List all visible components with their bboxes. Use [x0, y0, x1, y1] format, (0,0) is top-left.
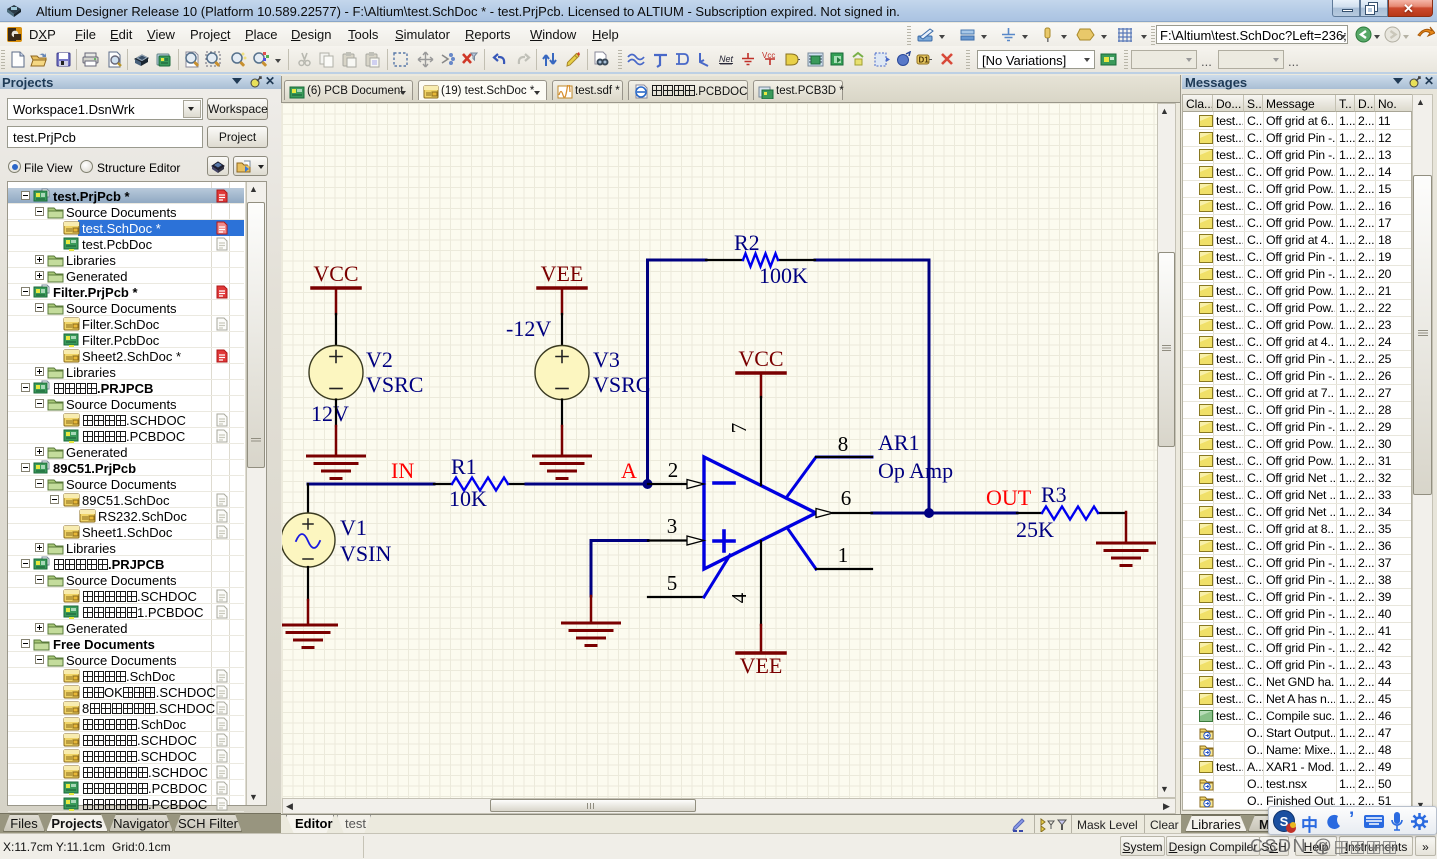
- ground G3 (V1): [280, 625, 337, 648]
- svg-text:6: 6: [841, 486, 852, 510]
- resistor R2: [706, 254, 815, 267]
- svg-text:VCC: VCC: [738, 346, 783, 371]
- svg-text:7: 7: [727, 423, 751, 434]
- op-amp minus symbol: [714, 481, 734, 485]
- op-amp plus symbol: [714, 531, 734, 551]
- svg-text:VCC: VCC: [313, 261, 358, 286]
- wire: output net OUT: [872, 512, 1017, 515]
- source V1 VSIN: [281, 513, 335, 567]
- ground stem V1: [307, 600, 310, 624]
- power bar VCC2: [737, 371, 785, 375]
- svg-text:25K: 25K: [1016, 517, 1054, 542]
- pin 7: [760, 397, 762, 485]
- svg-text:Net: Net: [719, 54, 734, 64]
- wire: feedback left vertical from node A up to R2: [648, 260, 707, 484]
- svg-text:8: 8: [838, 432, 849, 456]
- svg-text:VSIN: VSIN: [340, 541, 391, 566]
- svg-text:V2: V2: [366, 347, 393, 372]
- ground G1 (V2): [308, 456, 365, 479]
- svg-text:100K: 100K: [759, 263, 808, 288]
- power bar VEE2: [737, 651, 785, 655]
- svg-text:VSRC: VSRC: [366, 372, 423, 397]
- pin V3 bottom: [561, 400, 563, 427]
- ground stem (R3): [1125, 512, 1128, 542]
- svg-text:IN: IN: [391, 458, 414, 483]
- svg-text:1: 1: [838, 543, 849, 567]
- wire: input net IN from V1 to R1: [308, 483, 434, 486]
- svg-text:V3: V3: [593, 347, 620, 372]
- pin V3 top: [561, 314, 563, 346]
- resistor R1: [434, 478, 526, 491]
- pin 1: [788, 529, 816, 569]
- ground G5 (output load): [1098, 543, 1155, 566]
- pin 3: [648, 539, 687, 541]
- pin 8: [786, 457, 872, 498]
- junction node A: [643, 479, 653, 489]
- pin V1 top: [307, 484, 309, 513]
- svg-text:VSRC: VSRC: [593, 372, 650, 397]
- svg-text:R3: R3: [1041, 482, 1067, 507]
- wire: feedback right vertical from R2 down to output node: [815, 260, 929, 513]
- svg-text:D1: D1: [919, 56, 930, 65]
- svg-text:AR1: AR1: [878, 430, 920, 455]
- pin V2 bottom: [335, 400, 337, 427]
- svg-text:R1: R1: [451, 454, 477, 479]
- svg-text:A: A: [621, 458, 637, 483]
- power bar VCC1: [312, 286, 360, 290]
- pin 5: [648, 596, 704, 598]
- ground stem V3: [561, 426, 564, 455]
- svg-text:-12V: -12V: [506, 316, 551, 341]
- svg-text:V1: V1: [340, 515, 367, 540]
- svg-text:OUT: OUT: [986, 485, 1032, 510]
- wire: pin 3 to ground: [591, 541, 648, 597]
- svg-text:Op Amp: Op Amp: [878, 458, 953, 483]
- pin V2 top: [335, 314, 337, 346]
- ground stem V2: [335, 426, 338, 455]
- svg-text:2: 2: [668, 458, 679, 482]
- source V3 VSRC: [535, 346, 589, 400]
- source V2 VSRC: [309, 346, 363, 400]
- pin 6 (output): [816, 509, 833, 518]
- pin 2: [648, 483, 687, 485]
- svg-text:3: 3: [667, 514, 678, 538]
- pin 4: [760, 541, 762, 625]
- ground stem (pin3): [590, 596, 593, 622]
- svg-text:VEE: VEE: [740, 653, 783, 678]
- resistor R3: [1017, 507, 1126, 520]
- ground G2 (V3): [534, 456, 591, 479]
- ground G4 (op-amp + input): [563, 623, 620, 646]
- power VEE (op-amp): [760, 625, 763, 652]
- pin V1 bottom: [307, 567, 309, 600]
- wire: net A from R1 to op-amp pin 2: [526, 483, 648, 486]
- power bar VEE1: [538, 286, 586, 290]
- svg-text:VEE: VEE: [541, 261, 584, 286]
- svg-text:12V: 12V: [311, 401, 349, 426]
- svg-text:R2: R2: [734, 230, 760, 255]
- op-amp AR1 body: [704, 457, 816, 569]
- svg-text:10K: 10K: [449, 486, 487, 511]
- svg-text:4: 4: [727, 592, 751, 603]
- junction output node: [924, 508, 934, 518]
- svg-text:5: 5: [667, 571, 678, 595]
